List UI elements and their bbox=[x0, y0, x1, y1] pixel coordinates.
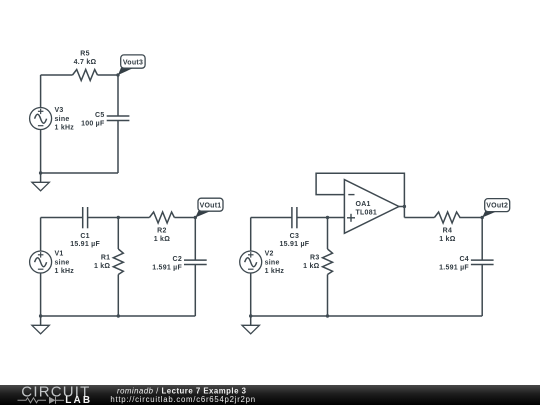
wire V2 top to C3 bbox=[251, 217, 292, 219]
junction dot bottom-left circuit 2 bbox=[39, 314, 42, 317]
svg-text:R2: R2 bbox=[157, 228, 166, 235]
wire C2 to bottom rail bbox=[194, 265, 196, 317]
svg-text:1.591 µF: 1.591 µF bbox=[152, 264, 182, 271]
capacitor C3 bbox=[280, 207, 310, 248]
net flag VOut2 bbox=[482, 199, 510, 218]
svg-text:R5: R5 bbox=[80, 51, 89, 58]
svg-text:C1: C1 bbox=[80, 233, 89, 240]
capacitor C4 bbox=[439, 256, 493, 272]
junction dot bottom-middle circuit 2 bbox=[117, 314, 120, 317]
svg-text:R4: R4 bbox=[443, 228, 452, 235]
svg-text:4.7 kΩ: 4.7 kΩ bbox=[74, 59, 97, 66]
svg-text:1 kΩ: 1 kΩ bbox=[303, 263, 319, 270]
junction dot bottom-middle circuit 3 bbox=[326, 314, 329, 317]
svg-text:C2: C2 bbox=[173, 256, 182, 263]
footer bar bbox=[0, 385, 540, 405]
wire V2 top lead bbox=[250, 218, 252, 252]
wire C3 to op-amp + input bbox=[297, 217, 345, 219]
wire node A down to R1 bbox=[117, 218, 119, 250]
wire R5 to node Vout3 bbox=[98, 74, 119, 76]
wire R2 to node VOut1 bbox=[174, 217, 195, 219]
voltage source V1 bbox=[30, 250, 75, 275]
svg-text:VOut2: VOut2 bbox=[486, 203, 508, 210]
junction dot op-amp output bbox=[403, 205, 406, 208]
resistor R4 bbox=[434, 212, 460, 243]
resistor R2 bbox=[149, 212, 174, 243]
svg-text:sine: sine bbox=[265, 259, 280, 266]
svg-text:sine: sine bbox=[55, 116, 70, 123]
net flag VOut1 bbox=[195, 198, 223, 217]
junction dot bottom-left circuit 3 bbox=[249, 314, 252, 317]
svg-text:1 kHz: 1 kHz bbox=[55, 268, 75, 275]
svg-text:1 kHz: 1 kHz bbox=[265, 268, 285, 275]
wire C5 to bottom rail bbox=[117, 121, 119, 173]
svg-text:V3: V3 bbox=[55, 107, 64, 114]
wire op-amp output stub bbox=[399, 206, 405, 208]
svg-text:Vout3: Vout3 bbox=[123, 59, 143, 66]
wire VOut2 node down to C4 bbox=[481, 218, 483, 261]
wire feedback loop bbox=[316, 173, 404, 217]
wire VOut1 node down to C2 bbox=[194, 218, 196, 261]
junction dot node B circuit 3 bbox=[326, 216, 329, 219]
wire R1 to bottom rail bbox=[117, 275, 119, 317]
capacitor C1 bbox=[70, 207, 100, 248]
svg-text:1 kHz: 1 kHz bbox=[55, 125, 75, 132]
wire V2 bottom lead bbox=[250, 273, 252, 316]
wire V1 top to C1 bbox=[41, 217, 83, 219]
wire R3 to bottom rail bbox=[327, 275, 329, 317]
node VOut1 junction dot bbox=[194, 216, 197, 219]
wire bottom rail circuit 3 bbox=[251, 315, 483, 317]
svg-text:http://circuitlab.com/c6r654p2: http://circuitlab.com/c6r654p2jr2pn bbox=[110, 395, 255, 404]
wire node down to C5 bbox=[117, 75, 119, 116]
svg-text:V2: V2 bbox=[265, 250, 274, 257]
resistor R1 bbox=[94, 249, 123, 275]
wire node B down to R3 bbox=[327, 218, 329, 250]
svg-text:TL081: TL081 bbox=[356, 209, 377, 216]
svg-text:R3: R3 bbox=[310, 254, 319, 261]
wire bottom rail circuit 1 bbox=[41, 172, 118, 174]
capacitor C5 bbox=[81, 112, 129, 128]
wire V3 bottom lead bbox=[40, 130, 42, 174]
node Vout3 junction dot bbox=[116, 73, 119, 76]
op-amp OA1 TL081 bbox=[344, 180, 399, 234]
resistor R3 bbox=[303, 249, 332, 275]
wire C4 to bottom rail bbox=[481, 265, 483, 317]
svg-text:C5: C5 bbox=[95, 112, 104, 119]
svg-text:100 µF: 100 µF bbox=[81, 120, 105, 127]
svg-text:VOut1: VOut1 bbox=[200, 203, 222, 210]
voltage source V2 bbox=[240, 250, 285, 275]
junction dot bottom-left circuit 1 bbox=[39, 171, 42, 174]
wire R4 to node VOut2 bbox=[459, 217, 482, 219]
wire C1 to R2 bbox=[88, 217, 150, 219]
svg-text:LAB: LAB bbox=[65, 395, 92, 405]
node VOut2 junction dot bbox=[481, 216, 484, 219]
wire bottom rail circuit 2 bbox=[41, 315, 196, 317]
svg-text:C3: C3 bbox=[290, 233, 299, 240]
svg-text:OA1: OA1 bbox=[356, 201, 371, 208]
capacitor C2 bbox=[152, 256, 206, 272]
ground circuit 1 bbox=[32, 173, 49, 191]
svg-text:C4: C4 bbox=[459, 256, 468, 263]
svg-text:15.91 µF: 15.91 µF bbox=[280, 241, 310, 248]
svg-text:15.91 µF: 15.91 µF bbox=[70, 241, 100, 248]
voltage source V3 bbox=[30, 107, 75, 132]
wire top-left horizontal (V3 top to R5) bbox=[41, 74, 73, 76]
net flag Vout3 bbox=[118, 55, 145, 75]
svg-text:1 kΩ: 1 kΩ bbox=[439, 236, 455, 243]
ground circuit 2 bbox=[32, 316, 49, 334]
svg-text:1.591 µF: 1.591 µF bbox=[439, 264, 469, 271]
svg-text:V1: V1 bbox=[55, 250, 64, 257]
resistor R5 bbox=[73, 51, 98, 81]
junction dot node A circuit 2 bbox=[117, 216, 120, 219]
svg-text:sine: sine bbox=[55, 259, 70, 266]
ground circuit 3 bbox=[242, 316, 259, 334]
svg-text:1 kΩ: 1 kΩ bbox=[94, 263, 110, 270]
wire output to R4 bbox=[404, 217, 434, 219]
CircuitLab logo bbox=[18, 384, 93, 407]
wire V1 top lead bbox=[40, 218, 42, 252]
wire V1 bottom lead bbox=[40, 273, 42, 316]
svg-text:1 kΩ: 1 kΩ bbox=[154, 236, 170, 243]
wire V3 top lead bbox=[40, 75, 42, 108]
svg-text:R1: R1 bbox=[101, 254, 110, 261]
